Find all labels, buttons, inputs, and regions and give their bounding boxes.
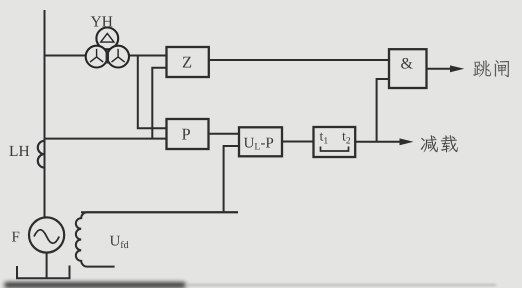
generator sine wave — [34, 230, 59, 244]
wire: tap up to AND gate input 2 — [377, 79, 389, 142]
label P — [182, 129, 190, 140]
label ampersand — [401, 58, 413, 69]
label LH — [9, 146, 29, 156]
arrow to trip output — [450, 65, 464, 72]
relay block Z — [167, 47, 209, 77]
wire: UL-P input 2 from Ufd line — [224, 146, 239, 212]
label Ufd — [110, 236, 129, 248]
label t1 — [320, 133, 328, 144]
relay block P — [167, 119, 209, 149]
excitation winding Ufd coil — [76, 212, 238, 266]
wire: timer output to load-shed arrow — [355, 141, 401, 143]
YH bottom-right circle with star winding — [107, 46, 129, 68]
wire: AND gate output — [427, 68, 452, 70]
arrow to load-shed output — [400, 138, 414, 145]
bottom edge faint line artifact — [186, 284, 496, 286]
label jianzai (load shedding) — [420, 135, 457, 152]
bottom edge artifact smudge — [4, 282, 186, 288]
wire: current branch LH to P input 2 — [45, 138, 167, 140]
generator F circle — [29, 217, 64, 252]
block UL-P — [239, 127, 282, 156]
label tiaozha (trip) — [473, 60, 509, 77]
label UL-P — [244, 138, 273, 150]
label F — [12, 232, 19, 242]
wire: generator bus vertical — [44, 10, 46, 217]
wire: YH branch horizontal to Z — [45, 55, 167, 57]
wire: current tap up to Z input 2 — [152, 68, 166, 139]
timer interval mark — [321, 147, 349, 152]
label Z — [183, 57, 191, 68]
timer block t1 t2 — [314, 127, 356, 157]
wire: Ufd top lead horizontal — [81, 211, 238, 213]
wire: generator to frame bracket — [46, 253, 48, 279]
AND gate block — [389, 49, 427, 88]
junction blob between YH circles — [106, 51, 109, 64]
frame ground bracket — [17, 266, 70, 279]
label t2 — [342, 133, 350, 144]
wire: UL-P output to timer — [282, 141, 314, 143]
voltage transformer YH: top circle with delta winding — [86, 28, 129, 68]
wire: voltage drop junction to P input 1 — [138, 56, 167, 129]
wire: P output to UL-P input 1 — [209, 133, 240, 135]
current transformer LH coil — [38, 141, 45, 168]
wire: Z output to AND gate input 1 — [209, 59, 389, 61]
label YH — [91, 16, 113, 26]
YH bottom-left circle with star winding — [86, 46, 108, 68]
